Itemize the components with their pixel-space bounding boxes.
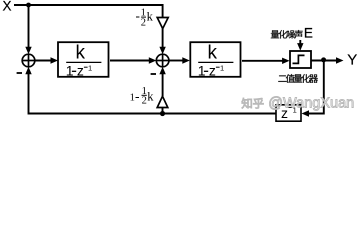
svg-text:z: z bbox=[209, 63, 216, 79]
svg-text:2: 2 bbox=[142, 96, 147, 107]
svg-text:1: 1 bbox=[88, 63, 92, 72]
node: junction dot on top wire above summer S1 bbox=[26, 3, 31, 8]
svg-text:Y: Y bbox=[347, 51, 357, 68]
summer S1 (circle with plus cross) bbox=[22, 54, 35, 67]
watermark 知乎 @WangXuan (overlay) bbox=[242, 96, 355, 112]
block H2: k/(1-z^-1) integrator bbox=[190, 42, 240, 78]
label: 二值量化器 under quantizer bbox=[278, 74, 318, 83]
wire: feedback from output node down into delay z^-1 (arrow) bbox=[302, 61, 324, 117]
svg-text:z: z bbox=[77, 63, 84, 79]
node: junction dot on bottom feedback wire below A2 bbox=[160, 111, 165, 116]
wire: S2 output to block H2 (arrow) bbox=[169, 57, 190, 63]
svg-text:k: k bbox=[147, 90, 154, 104]
svg-text:E: E bbox=[304, 26, 313, 41]
label: quantization noise 量化噪声 E bbox=[271, 26, 313, 41]
svg-text:1: 1 bbox=[220, 63, 224, 72]
amplifier A1 triangle (gain -1/2 k) pointing down bbox=[157, 18, 168, 29]
svg-text:k: k bbox=[76, 43, 86, 64]
wire: A2 output up into summer S2 (arrow) bbox=[159, 67, 165, 96]
summer S2 (circle with plus cross) bbox=[156, 54, 169, 67]
amplifier A2 triangle (gain 1-1/2 k) pointing up bbox=[157, 96, 168, 113]
wire: S1 output to block H1 (arrow) bbox=[35, 57, 58, 63]
svg-text:k: k bbox=[147, 10, 154, 24]
quantizer U1 (binary quantizer, sign symbol) bbox=[290, 51, 311, 68]
svg-text:1: 1 bbox=[130, 93, 135, 104]
label: minus sign at S1 feedback input bbox=[17, 72, 22, 74]
delay block z^-1 bbox=[276, 105, 301, 121]
label: -1/2 k gain of A1 bbox=[136, 8, 154, 29]
label: 1-1/2 k gain of A2 bbox=[130, 86, 155, 107]
wire: branch down into summer S1 (arrow) bbox=[25, 5, 31, 54]
svg-text:2: 2 bbox=[141, 18, 146, 29]
wire: quantizer output to Y (arrow) bbox=[311, 57, 344, 63]
wire: X input line to top-right corner down to amplifier A1 bbox=[14, 5, 163, 18]
wire: delay output along bottom, up into summer S1 (arrow) bbox=[25, 67, 276, 114]
wire: noise E arrow into quantizer top bbox=[297, 40, 303, 51]
wire: H1 output to summer S2 (arrow) bbox=[110, 57, 156, 63]
svg-text:k: k bbox=[208, 43, 218, 64]
svg-text:@WangXuan: @WangXuan bbox=[268, 96, 354, 112]
wire: H2 output to quantizer (arrow) bbox=[242, 58, 290, 64]
block H1: k/(1-z^-1) integrator bbox=[58, 42, 109, 78]
svg-text:X: X bbox=[3, 0, 12, 13]
wire: A1 output down into summer S2 (arrow) bbox=[159, 29, 165, 55]
label: minus sign at S2 feedback input bbox=[151, 73, 156, 75]
node: junction dot on output wire bbox=[321, 57, 326, 62]
